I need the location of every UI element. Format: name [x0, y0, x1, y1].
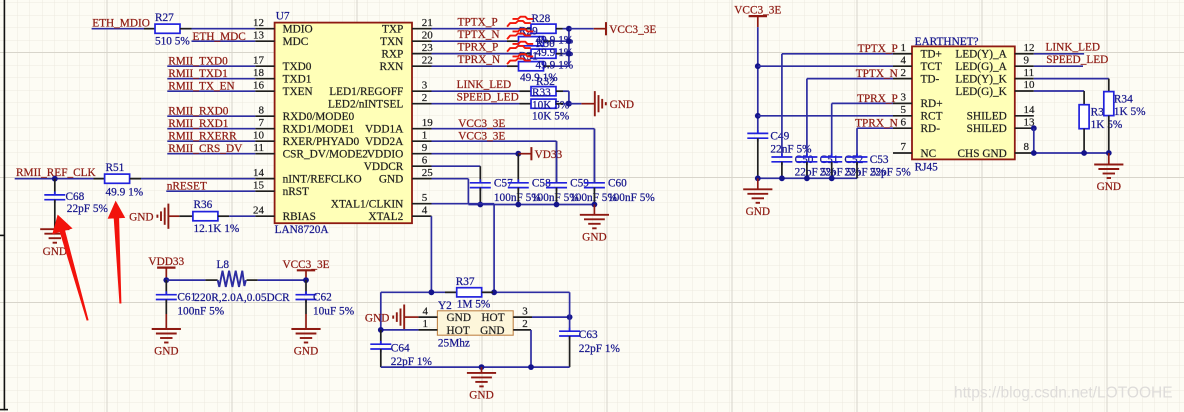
capacitor C53 — [847, 154, 868, 166]
U7 pin 4 (XTAL2) — [368, 204, 431, 223]
power VCC3_3E (RJ45) — [734, 5, 781, 27]
svg-text:13: 13 — [253, 29, 265, 41]
node bottom rail/Y2 pin2 — [528, 364, 534, 370]
U7 pin 12 (MDIO) — [253, 17, 313, 36]
capacitor C58 — [508, 179, 529, 191]
svg-text:SHILED: SHILED — [967, 111, 1007, 123]
wire RCT to RJ45 pin5 — [758, 115, 893, 117]
resistor R33 — [531, 99, 556, 108]
svg-text:2: 2 — [901, 67, 907, 79]
svg-text:8: 8 — [259, 104, 265, 116]
R37 right lead — [482, 291, 493, 293]
svg-text:TPRX_N: TPRX_N — [855, 118, 898, 130]
svg-text:VDD1A: VDD1A — [365, 124, 404, 136]
resistor R32 — [531, 87, 556, 96]
R29 left lead — [507, 40, 519, 42]
svg-text:49.9 1%: 49.9 1% — [106, 186, 144, 198]
capacitor C62 — [296, 291, 317, 303]
svg-text:RXD1/MODE1: RXD1/MODE1 — [283, 124, 355, 136]
wire crystal bottom rail — [381, 366, 570, 368]
wire R51 to U7 pin14 — [141, 178, 255, 180]
svg-text:23: 23 — [422, 42, 434, 54]
wire VCC trunk for R28-R31 — [568, 29, 570, 66]
svg-text:VD33: VD33 — [535, 149, 563, 161]
ground below C62 — [291, 329, 320, 358]
svg-text:nINT/REFCLKO: nINT/REFCLKO — [283, 174, 362, 186]
R30 left lead — [520, 53, 532, 55]
C59 top stem — [556, 141, 558, 183]
svg-text:MDC: MDC — [283, 36, 309, 48]
svg-text:RJ45: RJ45 — [915, 162, 939, 174]
capacitor C52 — [821, 154, 842, 166]
wire trunk to VCC3_3E port — [569, 28, 594, 30]
wire net VCC3_3E (pin1) — [432, 131, 557, 143]
connector RJ45 EARTHNET? body — [912, 46, 1015, 159]
C60 top stem — [593, 129, 595, 183]
svg-text:TXD0: TXD0 — [283, 61, 312, 73]
R36 right lead — [218, 215, 229, 217]
node trunk/RCT — [755, 113, 761, 119]
wire U7 pin5 XTAL1 — [432, 203, 495, 205]
svg-text:12.1K 1%: 12.1K 1% — [194, 223, 240, 235]
resistor R31 — [519, 62, 544, 71]
svg-text:12: 12 — [1024, 42, 1035, 54]
wire CHS GND rail — [1034, 152, 1109, 154]
wire pin1 down to C59 — [556, 141, 558, 183]
svg-text:RCT: RCT — [921, 111, 943, 123]
svg-text:10uF 5%: 10uF 5% — [313, 305, 355, 317]
C62 bottom stem — [305, 300, 307, 315]
U7 pin 18 (TXD1) — [253, 67, 311, 86]
wire net TPRX_N (RJ45 side) — [855, 118, 898, 130]
svg-text:Y2: Y2 — [438, 300, 452, 312]
svg-text:12: 12 — [253, 17, 264, 29]
U7 pin 17 (TXD0) — [253, 54, 312, 73]
svg-text:RMII_TXD0: RMII_TXD0 — [168, 56, 228, 68]
C64 bottom stem — [380, 349, 382, 367]
capacitor C59 — [546, 179, 567, 191]
wire Y2 pin2 down — [530, 330, 532, 367]
Y2 pin 2 stub — [513, 329, 531, 331]
node C59/GND rail — [554, 202, 560, 208]
ground below C61 — [152, 329, 181, 358]
svg-text:C49: C49 — [770, 131, 789, 143]
wire net TPRX_P (RJ45 side) — [832, 93, 898, 105]
svg-text:C53: C53 — [870, 154, 889, 166]
wire right rail down to C63 — [569, 292, 571, 331]
wire net RMII_TXD0 — [167, 56, 255, 68]
node VCC3_3E/C62 — [303, 277, 309, 283]
svg-text:9: 9 — [422, 142, 428, 154]
svg-text:RMII_RXD0: RMII_RXD0 — [168, 106, 229, 118]
RJ45 pin 6 (RD-) — [893, 116, 940, 135]
node C58/GND rail — [515, 202, 521, 208]
wire R30 to VCC trunk — [563, 53, 569, 55]
C52 bottom stem — [831, 162, 833, 179]
RJ45 pin 9 (LED(G)_A) — [955, 54, 1033, 73]
svg-text:24: 24 — [253, 204, 265, 216]
RJ45 pin 7 (NC) — [893, 141, 936, 160]
wire C68 top stem — [54, 179, 56, 195]
capacitor C51 — [796, 154, 817, 166]
svg-text:TD-: TD- — [921, 73, 940, 85]
node rail/C52 — [829, 175, 835, 181]
node rail/C50 — [779, 175, 785, 181]
svg-text:SHILED: SHILED — [967, 123, 1007, 135]
svg-text:R34: R34 — [1114, 93, 1133, 105]
wire XTAL1 down — [493, 204, 495, 293]
svg-text:SPEED_LED: SPEED_LED — [1046, 54, 1108, 66]
svg-text:9: 9 — [1024, 54, 1030, 66]
svg-text:1: 1 — [423, 318, 429, 330]
svg-text:C64: C64 — [391, 342, 410, 354]
ground at Y2 pin4 (rotated) — [365, 305, 404, 330]
wire net LINK_LED — [432, 79, 520, 91]
svg-text:20: 20 — [422, 29, 434, 41]
svg-text:10: 10 — [1024, 79, 1036, 91]
wire R27 to U7 pin12 — [192, 28, 256, 30]
node rail/R34 — [1106, 150, 1112, 156]
ground stem to Y2 pin4 — [404, 316, 418, 318]
node trunk/R30 — [566, 51, 572, 57]
svg-text:25Mhz: 25Mhz — [438, 337, 470, 349]
resistor R36 — [193, 212, 218, 221]
svg-text:15: 15 — [253, 179, 265, 191]
wire net LINK_LED (RJ45) — [1034, 41, 1100, 53]
svg-text:VDD2A: VDD2A — [365, 136, 404, 148]
U7 pin 25 (GND) — [379, 167, 433, 186]
wire net RMII_TX_EN — [167, 81, 255, 93]
wire GND rail (caps) — [468, 204, 594, 206]
U7 pin 10 (RXER/PHYAD0) — [253, 129, 360, 148]
node Y2 pin1/C64 — [378, 327, 384, 333]
node rail/pin13 — [1031, 150, 1037, 156]
wire R36 to U7 pin24 — [229, 215, 255, 217]
node trunk/R28 — [566, 26, 572, 32]
node VDD33/L8/C61 — [163, 277, 169, 283]
wire junction to GND port — [569, 103, 582, 105]
capacitor C49 — [747, 130, 768, 142]
RJ45 pin 5 (RCT) — [893, 104, 943, 123]
svg-text:100nF 5%: 100nF 5% — [177, 305, 224, 317]
svg-text:7: 7 — [259, 117, 265, 129]
svg-text:TPTX_N: TPTX_N — [856, 68, 898, 80]
R34 bottom lead — [1108, 116, 1110, 153]
svg-text:VCC3_3E: VCC3_3E — [734, 5, 781, 17]
wire XTAL2 down — [430, 216, 432, 292]
svg-text:17: 17 — [253, 54, 265, 66]
svg-text:RXER/PHYAD0: RXER/PHYAD0 — [283, 136, 360, 148]
inductor L8 — [218, 271, 246, 287]
svg-text:22: 22 — [422, 54, 433, 66]
svg-text:2: 2 — [522, 318, 528, 330]
GND stem below rail — [757, 178, 759, 189]
wire net TPRX_N (U7 side) — [432, 54, 508, 66]
svg-text:R37: R37 — [456, 276, 475, 288]
svg-text:3: 3 — [901, 92, 907, 104]
resistor R27 — [155, 24, 180, 33]
svg-text:VCC3_3E: VCC3_3E — [458, 118, 505, 130]
C58 top stem — [517, 154, 519, 183]
wire VCC trunk down to C49 — [757, 27, 759, 133]
svg-text:C61: C61 — [177, 292, 196, 304]
svg-text:21: 21 — [422, 17, 433, 29]
svg-text:CHS GND: CHS GND — [958, 148, 1007, 160]
wire R33 to junction — [563, 103, 569, 105]
capacitor C61 — [156, 291, 177, 303]
wire net RMII_RXERR — [167, 131, 255, 143]
C62 top stem — [305, 280, 307, 295]
wire RJ45 pin11 to R34 — [1034, 78, 1109, 80]
svg-text:TPRX_N: TPRX_N — [458, 54, 501, 66]
svg-text:4: 4 — [423, 305, 429, 317]
C60 bottom stem — [593, 188, 595, 205]
svg-text:TPTX_N: TPTX_N — [458, 29, 500, 41]
svg-text:2: 2 — [422, 92, 428, 104]
node trunk/R29 — [566, 38, 572, 44]
U7 pin 11 (CSR_DV/MODE2) — [253, 142, 368, 161]
RJ45 pin 4 (TCT) — [893, 54, 942, 73]
svg-text:4: 4 — [901, 54, 907, 66]
svg-text:TCT: TCT — [921, 61, 942, 73]
svg-text:VCC3_3E: VCC3_3E — [282, 259, 329, 271]
svg-text:6: 6 — [901, 116, 907, 128]
svg-text:GND: GND — [480, 325, 504, 337]
svg-text:1K 5%: 1K 5% — [1091, 119, 1123, 131]
svg-text:18: 18 — [253, 67, 265, 79]
svg-text:1K 5%: 1K 5% — [1114, 106, 1146, 118]
ground at R32/R33 (rotated) — [595, 91, 634, 116]
svg-text:RMII_CRS_DV: RMII_CRS_DV — [168, 143, 243, 155]
wire net SPEED_LED (RJ45) — [1034, 54, 1109, 66]
wire net RMII_RXD0 — [167, 106, 255, 118]
resistor R30 — [531, 49, 556, 58]
R29 right lead — [544, 40, 551, 42]
svg-text:22pF 5%: 22pF 5% — [67, 203, 109, 215]
power VCC3_3E (right of R28) — [594, 22, 657, 36]
U7 pin 19 (VDD1A) — [365, 117, 433, 136]
svg-text:5: 5 — [422, 192, 428, 204]
svg-text:VCC3_3E: VCC3_3E — [609, 24, 656, 36]
RJ45 pin 13 (SHILED) — [967, 116, 1035, 135]
node junction RMII_REF_CLK/C68 — [52, 176, 58, 182]
RJ45 pin 14 (SHILED) — [967, 104, 1035, 123]
svg-text:TPRX_P: TPRX_P — [458, 42, 499, 54]
node RJ45 pin13 — [1031, 125, 1037, 131]
svg-text:LAN8720A: LAN8720A — [275, 224, 330, 236]
U7 pin 1 (VDD2A) — [365, 129, 431, 148]
wire net RMII_RXD1 — [167, 118, 255, 130]
R28 left lead — [520, 28, 532, 30]
Y2 pin 1 stub — [418, 329, 437, 331]
svg-text:LED(G)_K: LED(G)_K — [955, 86, 1007, 98]
svg-text:GND: GND — [746, 206, 770, 218]
RJ45 pin 2 (TD-) — [893, 67, 940, 86]
ERC marker squiggle 3 — [507, 42, 533, 52]
GND stem right — [1108, 153, 1110, 165]
svg-text:GND: GND — [154, 346, 178, 358]
svg-text:EARTHNET?: EARTHNET? — [915, 36, 979, 48]
svg-text:GND: GND — [294, 346, 318, 358]
resistor R37 — [457, 288, 482, 297]
wire ETH_MDIO to R27 — [92, 28, 144, 30]
R51 left lead — [94, 178, 105, 180]
svg-text:NC: NC — [921, 148, 937, 160]
node rail/C51 — [804, 175, 810, 181]
wire net TPTX_N (U7 side) — [432, 29, 508, 41]
svg-text:GND: GND — [582, 231, 606, 243]
svg-text:SPEED_LED: SPEED_LED — [457, 92, 519, 104]
ground below C60 — [580, 215, 609, 244]
R35 bottom lead — [1083, 129, 1085, 153]
U7 pin 6 (VDDCR) — [364, 154, 432, 173]
U7 pin 7 (RXD1/MODE1) — [255, 117, 354, 136]
svg-text:GND: GND — [129, 212, 153, 224]
U7 pin 22 (RXN) — [379, 54, 432, 73]
svg-text:CSR_DV/MODE2: CSR_DV/MODE2 — [283, 149, 369, 161]
svg-text:GND: GND — [447, 312, 471, 324]
svg-text:22pF 1%: 22pF 1% — [391, 356, 433, 368]
svg-text:C60: C60 — [608, 177, 627, 189]
C57 top stem — [479, 166, 481, 183]
svg-text:10K 5%: 10K 5% — [532, 111, 570, 123]
RJ45 pin 3 (RD+) — [893, 92, 943, 111]
svg-text:C63: C63 — [579, 329, 598, 341]
ERC marker squiggle 1 — [507, 17, 533, 27]
svg-text:R36: R36 — [194, 199, 213, 211]
R35 top lead — [1083, 91, 1085, 105]
svg-text:14: 14 — [1024, 104, 1036, 116]
svg-text:GND: GND — [43, 246, 67, 258]
wire net VCC3_3E (pin19) — [432, 118, 595, 130]
R28 right lead — [556, 28, 563, 30]
node bottom rail/GND — [479, 364, 485, 370]
wire nRESET to U7 pin15 — [166, 190, 255, 192]
wire L8 to VCC3_3E — [258, 279, 306, 281]
svg-text:6: 6 — [422, 154, 428, 166]
svg-text:C52: C52 — [844, 154, 863, 166]
node rail/C49 — [755, 175, 761, 181]
svg-text:LED(Y)_A: LED(Y)_A — [955, 49, 1007, 61]
op-amp U7 LAN8720A body — [275, 23, 412, 224]
svg-text:C50: C50 — [795, 154, 814, 166]
svg-text:11: 11 — [253, 142, 264, 154]
node rail/XTAL2 — [429, 289, 435, 295]
U7 pin 2 (LED2/nINTSEL) — [328, 92, 432, 111]
svg-text:19: 19 — [422, 117, 434, 129]
wire R29 to VCC trunk — [550, 40, 569, 42]
svg-text:VCC3_3E: VCC3_3E — [458, 131, 505, 143]
node trunk/TCT — [755, 63, 761, 69]
wire rail left down — [380, 292, 382, 330]
capacitor C63 — [559, 328, 580, 340]
resistor R51 — [105, 174, 130, 183]
svg-text:49.9 1%: 49.9 1% — [536, 60, 574, 72]
svg-text:TXN: TXN — [380, 36, 403, 48]
wire net TPRX_P (U7 side) — [432, 42, 520, 54]
RJ45 pin 10 (LED(G)_K) — [955, 79, 1035, 98]
svg-text:XTAL2: XTAL2 — [368, 211, 403, 223]
ground stem (R32/R33) — [581, 103, 594, 105]
annotation arrow 2 (points to R51 value) — [108, 202, 124, 303]
svg-text:25: 25 — [422, 167, 434, 179]
U7 pin 3 (LED1/REGOFF) — [329, 79, 431, 98]
C57 bottom stem — [479, 188, 481, 205]
svg-text:LED2/nINTSEL: LED2/nINTSEL — [328, 99, 403, 111]
R51 right lead — [130, 178, 141, 180]
svg-text:TPRX_P: TPRX_P — [857, 93, 898, 105]
C61 top stem — [165, 280, 167, 295]
svg-text:C62: C62 — [313, 292, 332, 304]
svg-text:220R,2.0A,0.05DCR: 220R,2.0A,0.05DCR — [194, 292, 290, 304]
C50 bottom stem — [781, 162, 783, 179]
svg-text:GND: GND — [469, 390, 493, 402]
svg-text:LINK_LED: LINK_LED — [457, 79, 512, 91]
U7 pin 13 (MDC) — [253, 29, 308, 48]
C62 GND stem — [305, 314, 307, 329]
svg-text:TPTX_P: TPTX_P — [858, 43, 898, 55]
U7 pin 20 (TXN) — [380, 29, 433, 48]
svg-text:TXD1: TXD1 — [283, 74, 312, 86]
svg-text:XTAL1/CLKIN: XTAL1/CLKIN — [331, 199, 404, 211]
wire pin19 down to C60 — [593, 129, 595, 183]
wire U7 pin6 VDDCR — [432, 165, 481, 167]
C61 bottom stem — [165, 300, 167, 315]
svg-text:HOT: HOT — [447, 325, 470, 337]
wire ETH_MDC to U7 pin13 — [192, 40, 256, 42]
capacitor C64 — [370, 341, 391, 353]
ERC marker squiggle 2 — [507, 29, 533, 39]
wire R32 corner down — [568, 91, 570, 104]
svg-text:MDIO: MDIO — [283, 24, 313, 36]
U7 pin 24 (RBIAS) — [253, 204, 316, 223]
C59 bottom stem — [556, 188, 558, 205]
node C57/GND rail — [477, 202, 483, 208]
svg-text:4: 4 — [422, 204, 428, 216]
R31 right lead — [544, 65, 551, 67]
svg-text:nRESET: nRESET — [167, 180, 207, 192]
U7 pin 8 (RXD0/MODE0) — [255, 104, 354, 123]
svg-text:1: 1 — [422, 129, 428, 141]
ground below R34/R35 — [1094, 165, 1123, 194]
svg-text:LINK_LED: LINK_LED — [1046, 41, 1101, 53]
wire TPTX_P down to C50 — [781, 54, 783, 157]
Y2 pin 3 stub — [513, 316, 532, 318]
svg-text:14: 14 — [253, 167, 265, 179]
wire RJ45 GND rail — [758, 177, 857, 179]
svg-text:RXP: RXP — [381, 49, 403, 61]
wire C68 bottom stem — [54, 200, 56, 230]
svg-text:RMII_RXD1: RMII_RXD1 — [168, 118, 228, 130]
svg-text:ETH_MDC: ETH_MDC — [193, 31, 246, 43]
R34 top lead — [1108, 79, 1110, 92]
svg-text:VDDCR: VDDCR — [364, 161, 404, 173]
node Y2 pin3/C63 — [567, 314, 573, 320]
RJ45 pin 12 (LED(Y)_A) — [955, 42, 1034, 61]
VCC3_3E stem tail — [305, 280, 307, 281]
RJ45 pin 11 (LED(Y)_K) — [955, 67, 1034, 86]
R32 right lead — [556, 90, 563, 92]
U7 pin 14 (nINT/REFCLKO) — [253, 167, 362, 186]
L8 right lead — [247, 279, 258, 281]
wire crystal top rail — [381, 291, 570, 293]
wire net TPTX_P (RJ45 side) — [782, 43, 898, 55]
svg-text:R33: R33 — [532, 87, 551, 99]
svg-text:ETH_MDIO: ETH_MDIO — [92, 18, 150, 30]
svg-text:TD+: TD+ — [921, 49, 942, 61]
resistor R34 — [1104, 92, 1114, 116]
svg-text:RXD0/MODE0: RXD0/MODE0 — [283, 111, 355, 123]
